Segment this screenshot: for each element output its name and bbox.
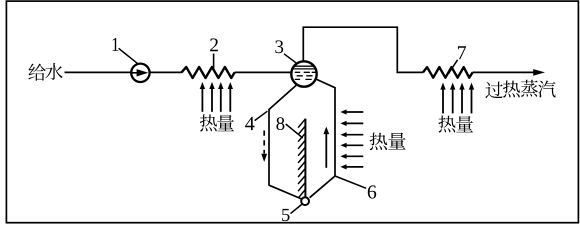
label 过热蒸汽 (superheated steam) — [485, 82, 502, 99]
label 5 — [282, 209, 289, 221]
leader line 1 — [119, 48, 138, 63]
label 1 — [113, 38, 119, 51]
label 3 — [275, 40, 283, 53]
leader line 8 — [286, 124, 303, 138]
leader line 2 — [213, 54, 215, 70]
label 6 — [368, 185, 376, 198]
leader line 4 — [255, 111, 268, 120]
up-flow arrow in riser — [325, 133, 327, 168]
junction node 5 — [301, 197, 309, 205]
downcomer 4 wire — [269, 85, 301, 199]
outlet wire with arrow — [473, 71, 535, 73]
wire: pump to economizer — [150, 71, 182, 73]
leader line 3 — [284, 54, 296, 63]
pump 1 — [131, 64, 149, 82]
heated wall 8 (hatched) — [304, 119, 306, 197]
label 热量 (heat) under 2 — [200, 114, 217, 131]
dashed down-flow arrow — [263, 131, 265, 154]
label 给水 (feed water) — [28, 64, 45, 81]
superheater 7 (heated zigzag) — [423, 67, 473, 78]
riser 6 wire — [310, 79, 335, 198]
label 8 — [276, 117, 284, 130]
label 2 — [210, 38, 218, 51]
economizer 2 (heated zigzag) — [182, 67, 235, 78]
steam drum 3 — [291, 61, 316, 86]
label 热量 (heat) under 7 — [438, 116, 455, 133]
leader line 7 — [449, 60, 458, 74]
heat arrows under 7 — [442, 89, 444, 114]
label 7 — [458, 46, 466, 59]
leader line 5 — [291, 205, 302, 214]
heat arrows into riser wall — [346, 111, 364, 113]
wire: economizer to drum — [235, 71, 292, 73]
wire: feedwater to pump — [65, 71, 131, 73]
label 热量 (heat) at riser — [370, 133, 388, 151]
wire: drum top riser loop — [303, 27, 423, 72]
label 4 — [245, 117, 254, 130]
heat arrows under 2 — [201, 88, 203, 112]
leader line 6 — [335, 176, 366, 188]
